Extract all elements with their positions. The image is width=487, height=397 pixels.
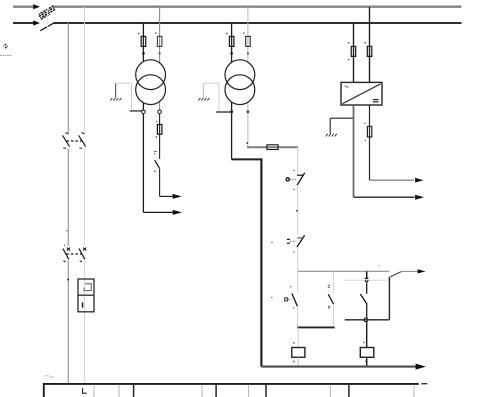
wire K1 to bus [297, 357, 299, 366]
wire right riser [388, 278, 390, 320]
bus L2 incoming arrow [13, 20, 40, 25]
faint linkage line [344, 279, 387, 281]
node T1 secondary L [142, 110, 146, 114]
title block left border [43, 383, 45, 397]
fuse F8 [367, 46, 372, 56]
fuse F6 [267, 145, 278, 150]
switch Q1 linkage [47, 9, 49, 30]
switch S1 [286, 170, 305, 190]
rectifier out wire R [369, 105, 371, 180]
wire T2 L elbow [232, 158, 262, 366]
title block thin dividers [94, 385, 414, 397]
node T1 primary [142, 52, 145, 55]
wire A label speck [66, 230, 67, 231]
ground E1 [110, 83, 121, 100]
ground E3 hook [330, 118, 353, 133]
wire T1 L outgoing [143, 210, 182, 215]
bus L1 (grey) [53, 6, 461, 8]
fuse F2 [157, 36, 162, 46]
node T1 secondary N [158, 110, 162, 114]
contactor K0 top speck [64, 245, 65, 246]
transformer T1 primary wire [142, 23, 144, 212]
left margin label text [0, 54, 11, 56]
fuse F5 speck [243, 32, 245, 34]
transformer T2 [225, 60, 255, 105]
breaker Q2 pole 1 [63, 132, 70, 148]
breaker Q2 pole 2 [79, 132, 86, 148]
title block top border [44, 383, 419, 385]
wire cross link [345, 319, 390, 321]
switch S2 [287, 235, 305, 253]
transformer T2 primary wire [231, 23, 233, 159]
wire T1 N outgoing [160, 168, 182, 199]
wire feeder B (x=84.4) [83, 7, 85, 384]
fuse F3 speck [156, 136, 158, 138]
node control feed corner [246, 142, 248, 144]
contactor K0 linkage [67, 253, 83, 255]
node ring [364, 318, 368, 322]
arrow branch down [365, 271, 369, 293]
breaker Q2 linkage [67, 140, 82, 142]
wire changeover out arrow [401, 269, 425, 273]
wire S3 margin speck [271, 297, 273, 299]
node T2 secondary N [247, 110, 250, 113]
rectifier out wire L [353, 105, 355, 197]
fuse F1 [141, 36, 146, 46]
node T2 secondary L [230, 110, 233, 113]
fuse F7 [351, 46, 356, 56]
ground E2 [198, 83, 209, 100]
wire R out arrow [370, 178, 424, 183]
fuse F7 speck [348, 42, 350, 44]
fuse F4 [229, 36, 234, 46]
fuse F9 speck [364, 123, 365, 124]
wire K1 feed [297, 327, 299, 347]
wire to node [366, 304, 368, 318]
transformer T2 neutral wire [247, 7, 249, 147]
rectifier U1 [341, 82, 382, 105]
wire E2 hook [204, 83, 232, 112]
node T1 neutral [159, 52, 161, 54]
left margin symbol [3, 44, 8, 49]
changeover blade [389, 272, 402, 278]
node on feeder A [67, 279, 69, 281]
switch S0 blade [154, 152, 159, 173]
fuse F8 speck [364, 42, 366, 44]
wire K2 to bus [366, 357, 368, 366]
rectifier wire R [369, 7, 371, 82]
wire L out arrow [354, 195, 425, 200]
title block dash [421, 383, 427, 385]
label L [83, 388, 87, 393]
wire feeder A (x=68.3) [67, 23, 69, 384]
rectifier wire L [353, 23, 355, 82]
contactor K0 pole 1 [63, 248, 70, 262]
fuse F9 speck2 [365, 140, 366, 141]
bus L2 (black) [54, 22, 462, 24]
contact S5 blade [360, 294, 367, 304]
node control drop [296, 210, 298, 212]
fuse F3 top speck [156, 121, 157, 122]
wire link S3-S4 [297, 326, 335, 328]
title block thick dividers [134, 385, 349, 397]
contactor K0 pole 2 [79, 248, 86, 262]
bottom bus with arrow [261, 364, 426, 370]
contact S3 branch [285, 271, 298, 327]
fuse F2 speck [155, 32, 157, 34]
coil K2 [360, 342, 374, 363]
wire E1 hook [116, 83, 144, 111]
disconnect switch Q1 blade on bus L2 [40, 23, 54, 31]
control bus label speck [378, 265, 380, 267]
bus L1 incoming arrow [13, 4, 40, 9]
wire S2 margin speck [271, 242, 273, 244]
control bus [298, 270, 390, 272]
fuse F1 speck [138, 33, 140, 35]
ground E3 [326, 134, 337, 137]
transformer T1 neutral wire [159, 7, 161, 159]
cable label text [45, 376, 54, 377]
node T2 primary [230, 52, 233, 55]
wire control drop [297, 147, 299, 271]
fuse F9 [367, 126, 371, 136]
wire control feed [247, 146, 298, 148]
wire node to K2 [366, 322, 368, 348]
contact S4 branch [328, 271, 334, 327]
transformer T1 [136, 60, 166, 105]
fuse F5 [246, 36, 251, 46]
meter P1 [78, 279, 94, 312]
fuse F4 speck [226, 33, 228, 35]
disconnect switch Q1 blade (hatched) on bus L1 [39, 6, 56, 20]
node T2 neutral top [247, 52, 249, 54]
coil K1 [292, 342, 305, 362]
fuse F3 [157, 125, 162, 135]
fuse F7 speck2 [348, 59, 350, 61]
